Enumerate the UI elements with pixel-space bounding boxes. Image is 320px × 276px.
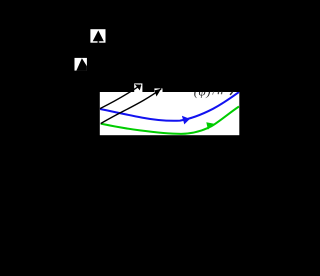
white bbox of arrow marker B xyxy=(75,58,87,71)
blue curve xyxy=(100,92,239,121)
black annotation arrow 2 (from green curve start) xyxy=(101,89,162,124)
glyph fragment diagonal near x=213 xyxy=(212,92,213,95)
svg-text:(ψ): (ψ) xyxy=(194,84,211,99)
arrowhead A (points up) xyxy=(93,30,104,41)
glyph fragment stubs near x=218-222 xyxy=(217,92,219,94)
black arrowhead 1 xyxy=(135,84,142,90)
blue arrowhead on curve xyxy=(182,116,190,125)
stem of arrow A xyxy=(98,41,100,43)
white bbox of upper-left vertical arrow marker A xyxy=(90,29,105,43)
white bbox behind black arrowhead 2 xyxy=(154,88,162,92)
green arrowhead on curve xyxy=(206,122,214,129)
white bbox behind black arrowhead 1 xyxy=(134,83,142,92)
glyph fragment tick near x=230 xyxy=(230,92,233,95)
black annotation arrow 1 (from blue curve start) xyxy=(100,85,141,109)
green curve xyxy=(101,107,239,134)
black arrowhead 2 xyxy=(155,89,162,97)
white plot panel xyxy=(100,92,240,135)
arrowhead B (points up) xyxy=(76,58,87,70)
